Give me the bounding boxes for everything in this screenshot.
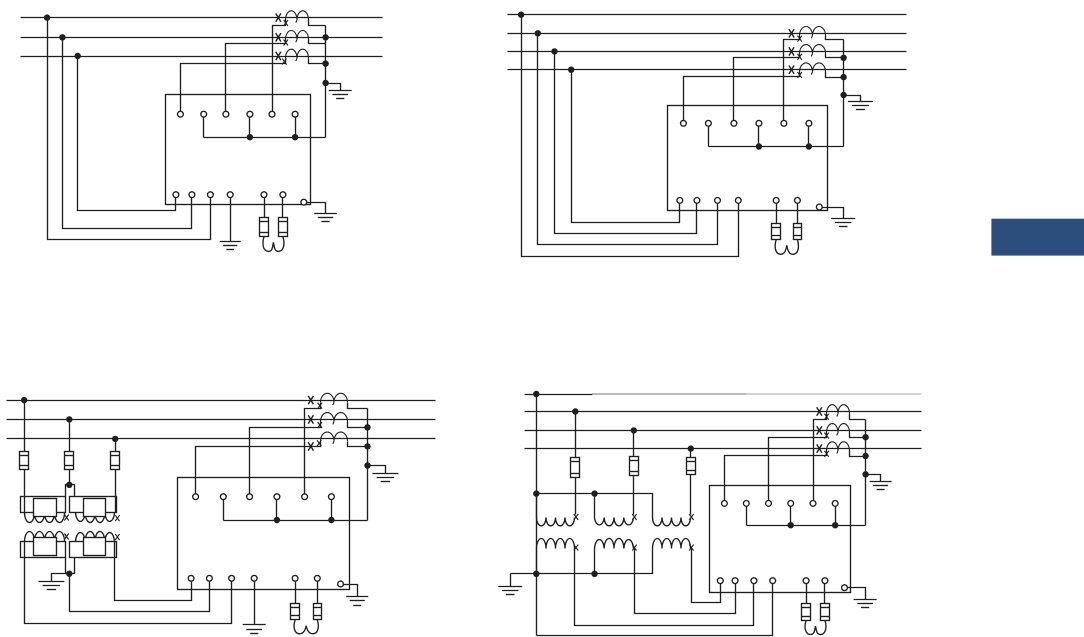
CT CT1 secondary polarity mark x [798, 36, 802, 42]
node CT3 return junction [364, 443, 370, 449]
PT PT1 primary winding [21, 497, 66, 513]
node CT common ground junction [840, 92, 846, 98]
wire CT2 secondary lead to terminal I2+ [226, 40, 286, 112]
PT PT2 secondary polarity mark x [632, 545, 636, 551]
wire terminal I1- drop [223, 500, 225, 521]
wire secondary middle to terminal V2 [70, 574, 210, 612]
wire CT common to ground [368, 466, 386, 474]
wire CT1 return lead [309, 20, 326, 26]
wire terminal I3- drop [835, 507, 837, 526]
wire chassis terminal to ground [344, 585, 358, 597]
wire CT3 return lead [826, 72, 844, 78]
wire CT1 secondary lead to terminal I1+ [784, 36, 800, 121]
fuse F1 power supply [772, 224, 781, 240]
wire terminal I1- drop [708, 127, 710, 147]
terminal VN (diagram 4) [770, 578, 776, 584]
wire CT common to ground [866, 475, 881, 482]
wire neutral bus N (diagram 4) [525, 394, 593, 396]
terminal P1 (diagram 2) [773, 198, 779, 204]
terminal I3- (diagram 2 current input) [806, 120, 812, 126]
PT PT2 primary winding [70, 497, 117, 513]
terminal P2 (diagram 2) [795, 198, 801, 204]
PT PT1 primary winding [537, 518, 575, 526]
node CT2 return junction [840, 55, 846, 61]
CT CT3 polarity mark X [817, 444, 822, 452]
CT CT2 phase B primary winding [800, 45, 826, 57]
fuse F4 power supply [802, 604, 811, 621]
terminal I3+ (diagram 1 current input) [269, 111, 275, 117]
wire bus A tap to fuse F1 [24, 401, 26, 452]
PT PT2 primary winding [595, 518, 634, 526]
wire neutral to terminal VN [537, 584, 773, 636]
terminal V1 (diagram 2) [677, 198, 683, 204]
wire VN terminal to ground [230, 198, 232, 242]
wire fuse F3 to PT3 primary [690, 475, 692, 515]
terminal VN (diagram 2) [735, 198, 741, 204]
PT PT1 primary polarity mark x [64, 515, 68, 521]
wire chassis terminal to ground [823, 208, 844, 219]
wire CT3 return lead [348, 442, 368, 447]
wire CT1 return lead [850, 414, 866, 420]
wire CT3 return lead [309, 59, 326, 64]
node PT2 secondary ground junction [591, 571, 597, 577]
CT CT1 phase A primary winding [286, 11, 309, 23]
wire P2 terminal to fuse [317, 582, 319, 604]
wire phase bus A (diagram 2) [508, 33, 907, 35]
wire CT1 secondary lead to terminal I1+ [273, 20, 286, 112]
wire CT common return vertical [367, 409, 369, 521]
terminal I1+ (diagram 4 current input) [722, 501, 728, 507]
wire phase bus B (diagram 3) [7, 419, 436, 421]
ground CT common earth (diagram 4) [870, 481, 892, 483]
terminal I1- (diagram 4 current input) [743, 501, 749, 507]
wire bus A tap to terminal V3 [538, 34, 718, 245]
node CT3 return junction [840, 74, 846, 80]
node I2- common junction [788, 522, 794, 528]
terminal V1 (diagram 4) [751, 578, 757, 584]
PT PT2 primary polarity mark x [115, 515, 119, 521]
wire bus C tap to terminal V1 [572, 70, 680, 223]
fuse F2 PT primary phase B [65, 452, 74, 470]
terminal I2+ (diagram 4 current input) [766, 501, 772, 507]
wire CT common to ground [326, 84, 341, 91]
wire CT1 secondary lead to terminal I1+ [305, 403, 321, 494]
wire CT2 secondary lead to terminal I2+ [734, 54, 800, 121]
node bus C voltage tap junction [75, 53, 81, 59]
terminal VN (diagram 3) [251, 575, 257, 581]
fuse F1 PT primary phase A [20, 452, 29, 470]
PT PT2 primary polarity mark x [632, 514, 636, 520]
wire PT1 secondary ground lead [536, 549, 538, 574]
terminal I1+ (diagram 3 current input) [193, 494, 199, 500]
PT PT3 primary winding [653, 518, 691, 526]
node I2- common junction [274, 517, 280, 523]
meter box U1 [166, 95, 311, 205]
wire CT2 return lead [826, 54, 844, 58]
node bus B PT tap junction [631, 427, 637, 433]
wire fuse F2 to PT2 primary [633, 476, 635, 515]
wire bus A tap to fuse F1 [575, 412, 577, 458]
wire chassis terminal to ground [848, 588, 866, 600]
wire bus B tap to fuse F2 [69, 420, 71, 452]
PT PT1 secondary winding [21, 542, 66, 558]
node I3- common junction [806, 143, 812, 149]
node PT1 secondary ground junction [533, 571, 539, 577]
wire terminal I1- drop [203, 118, 205, 138]
wire CT common to ground [844, 96, 861, 102]
CT CT2 secondary polarity mark x [798, 54, 802, 60]
wire terminal I2- drop [249, 118, 251, 138]
node CT3 return junction [322, 60, 328, 66]
wire neutral bus N faded segment [592, 393, 746, 395]
terminal I2- (diagram 1 current input) [247, 111, 253, 117]
terminal V3 (diagram 3) [229, 575, 235, 581]
terminal I1+ (diagram 1 current input) [178, 111, 184, 117]
CT CT2 phase B primary winding [286, 31, 309, 43]
wire power supply leads curl [263, 236, 273, 251]
wire CT3 secondary lead to terminal I3+ [181, 59, 286, 112]
terminal V3 (diagram 4) [717, 578, 723, 584]
CT CT1 phase A primary winding [827, 405, 850, 417]
fuse F2 power supply [279, 218, 288, 237]
wire secondary middle to ground [52, 574, 70, 582]
fuse F4 power supply [291, 604, 300, 620]
CT CT2 phase B primary winding [321, 413, 348, 425]
node CT2 return junction [364, 424, 370, 430]
wire terminal I3- drop [295, 118, 297, 138]
node CT3 return junction [862, 453, 868, 459]
ground chassis earth (diagram 2) [831, 218, 855, 220]
node CT common ground junction [364, 462, 370, 468]
node open-delta primary middle junction [66, 482, 72, 488]
wire CT3 return lead [850, 451, 866, 457]
terminal I2- (diagram 4 current input) [788, 501, 794, 507]
PT PT1 secondary winding [537, 539, 575, 549]
node bus N tap junction [518, 12, 524, 18]
CT CT1 phase A primary winding [800, 27, 826, 39]
wire CT common return vertical [325, 26, 327, 138]
CT CT3 phase C primary winding [827, 442, 850, 454]
wire CT2 return lead [309, 40, 326, 44]
CT CT3 polarity mark X [789, 66, 794, 74]
CT CT2 polarity mark X [817, 426, 822, 434]
PT PT2 secondary winding [595, 538, 634, 548]
wire fuse F1 to PT1 primary [24, 470, 26, 513]
wire PT2 secondary ground lead [594, 549, 596, 574]
PT PT1 secondary polarity mark x [574, 545, 578, 551]
CT CT3 phase C primary winding [321, 432, 348, 444]
CT CT2 secondary polarity mark x [318, 422, 322, 428]
wire PT3 secondary to terminal V3 [692, 549, 721, 603]
wire P1 terminal to fuse [295, 582, 297, 604]
wire CT3 secondary lead to terminal I3+ [684, 72, 800, 121]
wire bus C tap to terminal V1 [78, 57, 176, 211]
meter box U2 [668, 106, 828, 211]
terminal I2- (diagram 2 current input) [756, 120, 762, 126]
terminal I3+ (diagram 2 current input) [781, 120, 787, 126]
wire bus B tap to terminal V2 [555, 52, 697, 234]
fuse F3 PT primary phase C [687, 458, 696, 475]
wire terminal I3- drop [331, 500, 333, 521]
wire phase bus C (diagram 1) [21, 56, 383, 58]
wire terminal I3- drop [808, 127, 810, 147]
wire phase bus A (diagram 4) [525, 411, 922, 413]
terminal P2 (diagram 3) [314, 575, 320, 581]
wire PT1 secondary to terminal V1 [575, 549, 754, 626]
terminal chassis ground (diagram 2) [816, 204, 822, 210]
node I3- common junction [832, 522, 838, 528]
terminal I3- (diagram 1 current input) [292, 111, 298, 117]
wire phase bus A (diagram 3) [7, 400, 436, 402]
ground PT secondary earth (diagram 4) [498, 586, 522, 588]
node bus B PT tap junction [66, 416, 72, 422]
meter box U4 [710, 486, 851, 593]
node bus C PT tap junction [112, 436, 118, 442]
terminal P2 (diagram 4) [822, 578, 828, 584]
CT CT1 polarity mark X [308, 396, 313, 404]
wire chassis terminal to ground [307, 203, 326, 214]
terminal V2 (diagram 4) [732, 578, 738, 584]
terminal I3+ (diagram 4 current input) [810, 501, 816, 507]
CT CT3 polarity mark X [276, 52, 281, 60]
wire CT2 return lead [348, 422, 368, 428]
wire CT common return vertical [843, 40, 845, 147]
CT CT3 secondary polarity mark x [317, 440, 321, 446]
terminal I3- (diagram 3 current input) [329, 494, 335, 500]
page tab marker [991, 219, 1084, 256]
terminal V1 (diagram 3) [188, 575, 194, 581]
node CT common ground junction [322, 80, 328, 86]
wire neutral distribution vertical [536, 395, 538, 636]
wire PT1 secondary to terminal V3 [25, 542, 232, 624]
wire P2 terminal to fuse [282, 198, 284, 218]
wire neutral distribution to PT2 PT3 [537, 494, 653, 518]
wire power supply leads curl [294, 620, 306, 634]
node bus C tap junction [568, 67, 574, 73]
wire I return common bus [747, 525, 866, 527]
wire P1 terminal to fuse [776, 204, 778, 224]
wire fuse F1 to PT1 primary [575, 478, 577, 515]
ground chassis earth (diagram 4) [854, 599, 877, 601]
PT PT1 primary polarity mark x [574, 514, 578, 520]
meter box U3 [178, 478, 350, 590]
wire I return common bus [709, 146, 844, 148]
wire neutral bus N (diagram 2) [508, 14, 907, 16]
PT PT2 secondary polarity mark x [115, 534, 119, 540]
terminal I1+ (diagram 2 current input) [681, 120, 687, 126]
wire VN terminal to ground [254, 582, 256, 625]
CT CT3 phase C primary winding [800, 63, 826, 75]
CT CT2 secondary polarity mark x [824, 433, 828, 439]
ground chassis earth (diagram 1) [314, 213, 337, 215]
wire bus B tap to fuse F2 [633, 431, 635, 457]
CT CT3 secondary polarity mark x [798, 72, 802, 78]
wire fuse F3 to PT2 primary [115, 470, 117, 513]
terminal I2- (diagram 3 current input) [274, 494, 280, 500]
ground PT secondary earth [38, 581, 64, 583]
CT CT1 polarity mark X [276, 13, 281, 21]
wire secondary middle leads [66, 558, 75, 574]
ground CT common earth [329, 90, 352, 92]
wire bus A tap to terminal V3 [48, 18, 211, 240]
terminal I2+ (diagram 2 current input) [731, 120, 737, 126]
wire CT2 secondary lead to terminal I2+ [769, 433, 827, 501]
terminal P1 (diagram 1) [261, 192, 267, 198]
node bus C PT tap junction [688, 445, 694, 451]
CT CT3 secondary polarity mark x [282, 59, 286, 65]
node secondary middle junction [66, 571, 72, 577]
terminal V1 (diagram 1) [173, 192, 179, 198]
wire phase bus B (diagram 2) [508, 51, 907, 53]
CT CT3 phase C primary winding [286, 49, 309, 61]
node bus A PT tap junction [572, 408, 578, 414]
CT CT2 secondary polarity mark x [284, 40, 288, 46]
wire P2 terminal to fuse [824, 584, 826, 604]
node PT2 neutral junction [591, 490, 597, 496]
CT CT3 secondary polarity mark x [824, 451, 828, 457]
node I2- common junction [247, 134, 253, 140]
PT PT3 primary polarity mark x [689, 514, 693, 520]
node CT2 return junction [862, 434, 868, 440]
wire phase bus C (diagram 3) [7, 438, 436, 440]
terminal P1 (diagram 4) [803, 578, 809, 584]
node bus B tap junction [551, 48, 557, 54]
node CT common ground junction [862, 471, 868, 477]
CT CT2 polarity mark X [276, 33, 281, 41]
wire I return common bus [224, 520, 368, 522]
wire terminal I2- drop [790, 507, 792, 526]
ground CT common earth (diagram 2) [848, 101, 873, 103]
terminal V2 (diagram 1) [189, 192, 195, 198]
wire P1 terminal to fuse [806, 584, 808, 604]
node I3- common junction [292, 134, 298, 140]
node bus N tap junction [533, 391, 539, 397]
CT CT1 polarity mark X [789, 29, 794, 37]
node bus A tap junction [535, 30, 541, 36]
wire open-delta middle to PT1 and PT2 [66, 485, 75, 497]
node neutral PT feed junction [533, 490, 539, 496]
wire power supply leads curl [805, 620, 815, 635]
wire terminal I2- drop [758, 127, 760, 147]
fuse F2 power supply [794, 224, 802, 240]
wire PT2 primary neutral lead [594, 494, 596, 518]
wire bus B tap to terminal V2 [63, 38, 192, 229]
PT PT2 secondary winding [70, 542, 117, 558]
wire CT2 secondary lead to terminal I2+ [250, 422, 321, 494]
CT CT1 secondary polarity mark x [824, 414, 828, 420]
CT CT3 polarity mark X [308, 442, 313, 450]
wire CT3 secondary lead to terminal I3+ [196, 442, 321, 494]
wire I return common bus [204, 137, 326, 139]
node I3- common junction [328, 517, 334, 523]
terminal V3 (diagram 1) [208, 192, 214, 198]
terminal P2 (diagram 1) [280, 192, 286, 198]
terminal I1- (diagram 1 current input) [201, 111, 207, 117]
wire phase bus B (diagram 1) [21, 37, 383, 39]
node CT common on bus B [322, 34, 328, 40]
wire CT3 secondary lead to terminal I3+ [725, 451, 827, 501]
wire PT secondary ground bus [511, 549, 653, 574]
wire ground bus to earth [510, 574, 512, 587]
terminal V2 (diagram 3) [207, 575, 213, 581]
terminal chassis ground (diagram 3) [338, 581, 344, 587]
wire terminal I2- drop [276, 500, 278, 521]
terminal VN (diagram 1) [227, 192, 233, 198]
wire PT2 secondary to terminal V1 [115, 542, 192, 601]
node I2- common junction [756, 143, 762, 149]
PT PT3 secondary polarity mark x [689, 545, 693, 551]
CT CT1 secondary polarity mark x [284, 20, 288, 26]
wire PT1 primary neutral lead [536, 494, 538, 518]
node bus A voltage tap junction [44, 14, 50, 20]
wire power supply leads curl [775, 239, 787, 254]
PT PT3 secondary winding [653, 539, 691, 549]
ground chassis earth (diagram 3) [346, 596, 368, 598]
wire phase bus C (diagram 2) [508, 69, 907, 71]
fuse F1 power supply [260, 218, 269, 237]
terminal V3 (diagram 2) [715, 198, 721, 204]
CT CT2 polarity mark X [789, 47, 794, 55]
wire P2 terminal to fuse [797, 204, 799, 224]
node bus B voltage tap junction [59, 34, 65, 40]
ground CT common earth (diagram 3) [372, 473, 398, 475]
fuse F1 PT primary phase A [571, 458, 580, 478]
fuse F5 power supply [314, 604, 322, 620]
wire PT2 secondary to terminal V2 [635, 549, 736, 614]
terminal I2+ (diagram 1 current input) [223, 111, 229, 117]
terminal I1- (diagram 3 current input) [220, 494, 226, 500]
ground VN earth [220, 241, 241, 243]
wire CT2 return lead [850, 433, 866, 438]
wire fuse F2 to open-delta middle [69, 470, 71, 485]
CT CT1 polarity mark X [817, 407, 822, 415]
wire phase bus A (diagram 1) [21, 17, 383, 19]
terminal chassis ground (diagram 1) [301, 199, 307, 205]
terminal I1- (diagram 2 current input) [706, 120, 712, 126]
wire CT1 return lead [826, 36, 844, 40]
wire CT1 return lead [348, 403, 368, 409]
wire phase bus B (diagram 4) [525, 430, 922, 432]
wire bus C tap to fuse F3 [690, 449, 692, 458]
CT CT1 phase A primary winding [321, 393, 348, 405]
wire bus N tap to terminal VN [522, 15, 739, 257]
wire bus C tap to fuse F3 [115, 439, 117, 452]
wire phase bus C (diagram 4) [525, 448, 922, 450]
CT CT1 secondary polarity mark x [318, 403, 322, 409]
terminal P1 (diagram 3) [292, 575, 298, 581]
terminal V2 (diagram 2) [694, 198, 700, 204]
fuse F2 PT primary phase B [630, 457, 639, 476]
terminal I3- (diagram 4 current input) [832, 501, 838, 507]
wire P1 terminal to fuse [264, 198, 266, 218]
terminal I3+ (diagram 3 current input) [302, 494, 308, 500]
terminal I2+ (diagram 3 current input) [247, 494, 253, 500]
ground VN earth (diagram 3) [243, 624, 266, 626]
CT CT2 phase B primary winding [827, 424, 850, 436]
fuse F3 PT primary phase C [111, 452, 120, 470]
CT CT2 polarity mark X [308, 415, 313, 423]
node bus A PT tap junction [21, 397, 27, 403]
wire CT1 secondary lead to terminal I1+ [814, 414, 827, 501]
wire terminal I1- drop [746, 507, 748, 526]
fuse F5 power supply [821, 604, 830, 621]
PT PT1 secondary polarity mark x [64, 534, 68, 540]
terminal chassis ground (diagram 4) [842, 585, 848, 591]
wire CT common return vertical [865, 420, 867, 526]
